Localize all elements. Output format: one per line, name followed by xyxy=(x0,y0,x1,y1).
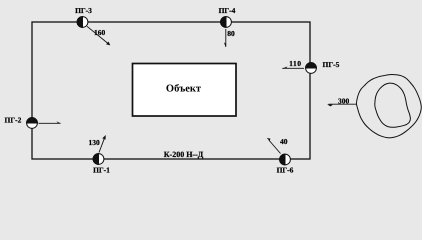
svg-text:ПГ-4: ПГ-4 xyxy=(219,6,236,15)
svg-text:40: 40 xyxy=(280,137,288,146)
svg-text:300: 300 xyxy=(338,97,350,106)
svg-text:110: 110 xyxy=(289,59,301,68)
svg-text:ПГ-3: ПГ-3 xyxy=(75,6,92,15)
svg-text:ПГ-2: ПГ-2 xyxy=(5,116,22,125)
svg-text:ПГ-5: ПГ-5 xyxy=(323,60,340,69)
svg-text:130: 130 xyxy=(89,138,101,147)
svg-text:80: 80 xyxy=(227,29,235,38)
svg-text:ПГ-1: ПГ-1 xyxy=(93,166,110,175)
svg-text:Объект: Объект xyxy=(166,84,202,95)
svg-text:ПГ-6: ПГ-6 xyxy=(277,166,294,175)
svg-text:160: 160 xyxy=(94,28,106,37)
svg-text:К-200 Н--Д: К-200 Н--Д xyxy=(164,150,204,159)
